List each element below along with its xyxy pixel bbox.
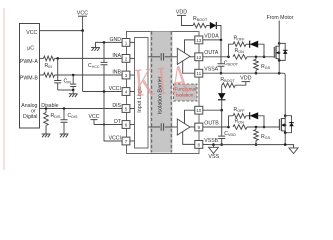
pin 5 DIS	[122, 105, 130, 113]
wire VSSB ground line	[203, 144, 294, 148]
svg-text:VDDA: VDDA	[204, 33, 219, 39]
wire pin10 to driver B	[185, 110, 195, 124]
wire Disable to DIS	[40, 108, 123, 110]
svg-text:7: 7	[125, 139, 128, 144]
svg-text:DIS: DIS	[112, 103, 121, 109]
svg-text:3: 3	[125, 73, 128, 78]
wire PWM-A to INA	[55, 57, 123, 59]
wire diode B to pin10	[221, 100, 223, 110]
wire pin8 to driver B	[183, 132, 195, 145]
ground power	[289, 148, 298, 154]
svg-text:4: 4	[125, 90, 128, 95]
ground C_IN	[72, 90, 74, 94]
resistor R_ON B	[233, 125, 247, 130]
svg-text:PWM-B: PWM-B	[20, 75, 38, 81]
resistor R_OFF A	[233, 42, 246, 47]
wire driver B out	[190, 126, 195, 128]
wire driver A out	[190, 56, 195, 58]
resistor R_BOOT B	[222, 83, 235, 88]
wire half-bridge jog	[279, 60, 285, 115]
wire gate B	[247, 126, 280, 128]
wire gate A	[247, 56, 275, 58]
node PWM-A junction	[56, 57, 59, 60]
pin 13 VDDA	[195, 36, 203, 44]
node VDDA	[220, 39, 223, 42]
capacitor C_VDD	[221, 110, 223, 136]
wire branch up B	[229, 116, 234, 127]
node C_BOOT bottom	[220, 72, 223, 75]
resistor R_GS B	[255, 127, 257, 130]
wire PWM-B from uC	[40, 74, 44, 76]
node Q2 drain	[284, 114, 287, 117]
node GND junction	[103, 41, 106, 44]
isolation capacitor A	[161, 53, 163, 60]
wire PWM-B to INB	[55, 74, 123, 76]
op-amp driver B	[177, 119, 190, 135]
ground GND	[91, 47, 100, 49]
wire OUTA	[203, 56, 229, 58]
resistor R_OFF B	[233, 114, 246, 119]
wire VDDA pin13	[203, 39, 221, 41]
wire OUTB	[203, 126, 229, 128]
svg-text:8: 8	[198, 142, 201, 147]
wire to diode A	[207, 25, 210, 27]
resistor R_BOOT A	[193, 23, 207, 28]
resistor R_GS A	[255, 57, 257, 59]
node R_GS B bottom	[255, 143, 258, 146]
wire GND pin	[96, 42, 123, 47]
svg-text:VCCI: VCCI	[109, 135, 121, 141]
wire VCCI pin4	[83, 91, 123, 93]
resistor R_IN (PWM-A)	[44, 56, 55, 61]
wire PWM-A from uC	[40, 57, 44, 59]
resistor R_IN (PWM-B)	[44, 73, 55, 78]
svg-text:2: 2	[125, 56, 128, 61]
pin 3 INB	[122, 71, 130, 79]
transistor Q1 high-side MOSFET	[275, 46, 277, 59]
node Q1 source	[278, 59, 281, 62]
pin 7 VCCI	[122, 137, 130, 145]
capacitor C_IN-B	[72, 75, 74, 84]
svg-text:INA: INA	[112, 53, 121, 59]
pin 1 GND	[122, 39, 130, 47]
op-amp driver A	[177, 48, 190, 64]
svg-text:Digital: Digital	[23, 114, 37, 120]
pin 11 VSSA	[195, 69, 203, 77]
wire barrier channel B	[148, 126, 160, 128]
svg-text:VCC: VCC	[77, 11, 88, 17]
node C_DIS tap	[63, 107, 66, 110]
svg-text:9: 9	[198, 125, 201, 130]
svg-text:10: 10	[196, 108, 202, 113]
wire branch up A	[229, 44, 234, 57]
node OUTA branch	[227, 56, 230, 59]
svg-text:KIA: KIA	[133, 57, 194, 105]
svg-text:OUTB: OUTB	[204, 120, 219, 126]
svg-text:VDD: VDD	[240, 76, 251, 82]
pin 12 OUTA	[195, 53, 203, 61]
functional isolation box	[174, 84, 198, 101]
node VSSA mid	[278, 72, 281, 75]
node Q2 source	[284, 131, 287, 134]
svg-text:VCCI: VCCI	[109, 86, 121, 92]
pin 6 DT	[122, 121, 130, 129]
isolation barrier band	[150, 32, 173, 153]
node R_DIS tap	[45, 107, 48, 110]
svg-text:From Motor: From Motor	[267, 15, 294, 21]
wire from motor	[278, 21, 280, 44]
node gate B	[263, 126, 266, 129]
svg-text:11: 11	[196, 71, 201, 76]
svg-text:12: 12	[196, 55, 202, 60]
svg-text:GND: GND	[109, 37, 121, 43]
wire rboot to diode B	[221, 85, 224, 93]
node PWM-B junction	[72, 74, 75, 77]
wire VCC to DT pin6	[94, 124, 122, 126]
input logic box	[135, 38, 149, 149]
svg-text:VSSA: VSSA	[204, 67, 218, 73]
svg-text:6: 6	[125, 123, 128, 128]
node Q2 source gnd	[284, 143, 287, 146]
wire VCC to uC	[40, 30, 83, 32]
node OUTB branch	[227, 126, 230, 129]
capacitor C_DIS	[63, 109, 65, 120]
node VCCI junction	[103, 90, 106, 93]
node VSS tap	[212, 143, 215, 146]
svg-text:INB: INB	[112, 69, 121, 75]
diode D_BOOT A	[210, 22, 217, 29]
node DT junction	[103, 123, 105, 125]
diode D_OFF B	[249, 112, 251, 119]
wire to diode gate A	[246, 43, 250, 45]
node C_VDD bottom	[220, 143, 223, 146]
wire diode to rail A	[216, 26, 221, 40]
wire Q2 source down	[284, 133, 286, 145]
svg-text:OUTA: OUTA	[204, 50, 219, 56]
node R_GS A bottom	[255, 72, 258, 75]
isolation capacitor B	[161, 123, 163, 130]
node VCC junction	[81, 29, 84, 32]
node R_GS A top	[255, 56, 258, 59]
wire to diode gate B	[246, 115, 250, 117]
gate driver IC outline	[127, 32, 200, 154]
wire VCC rail	[82, 31, 84, 92]
svg-text:DT: DT	[114, 119, 122, 125]
transistor Q2 low-side MOSFET	[280, 118, 282, 131]
svg-text:5: 5	[125, 107, 128, 112]
node R_GS B top	[255, 126, 258, 129]
wire VSSA	[203, 72, 279, 74]
capacitor C_BOOT	[220, 40, 222, 64]
capacitor C_VCC	[103, 42, 105, 62]
ground R_DIS	[42, 133, 51, 135]
pin 2 INA	[122, 55, 130, 63]
ground C_DIS	[60, 133, 69, 135]
wire cap bottoms	[58, 89, 73, 91]
diode D_OFF A	[249, 41, 251, 48]
scan fold line	[3, 8, 5, 170]
wire pin11 to driver A	[183, 61, 195, 73]
node cap-gnd	[72, 89, 75, 92]
svg-text:µC: µC	[27, 46, 34, 52]
watermark	[133, 57, 194, 105]
node VDDB	[220, 109, 223, 112]
microcontroller U-micro box	[20, 24, 40, 129]
svg-text:VSS: VSS	[208, 154, 219, 160]
diode D_BOOT B	[218, 93, 226, 100]
capacitor C_IN-A	[57, 58, 59, 80]
pin 10 VDDB	[195, 106, 203, 114]
VSS arrow	[213, 145, 215, 148]
wire diode out A	[258, 44, 264, 57]
wire VDDB pin10	[203, 109, 222, 111]
node gate A	[263, 56, 266, 59]
wire pin13 to driver A	[185, 40, 195, 53]
svg-text:VDD: VDD	[176, 9, 187, 15]
resistor R_ON A	[233, 55, 247, 60]
pin 4 VCCI	[122, 88, 130, 96]
svg-text:PWM-A: PWM-A	[20, 59, 38, 65]
svg-text:13: 13	[196, 38, 202, 43]
wire diode out B	[258, 116, 264, 127]
node Q1 drain	[278, 42, 281, 45]
svg-text:1: 1	[125, 40, 128, 45]
wire pin7 feed	[104, 92, 122, 142]
svg-text:VSSB: VSSB	[204, 138, 218, 144]
svg-text:VCC: VCC	[26, 30, 37, 36]
pin 8 VSSB	[195, 141, 203, 149]
resistor R_DIS	[45, 109, 47, 113]
wire barrier channel A	[148, 56, 160, 58]
pin 9 OUTB	[195, 123, 203, 131]
